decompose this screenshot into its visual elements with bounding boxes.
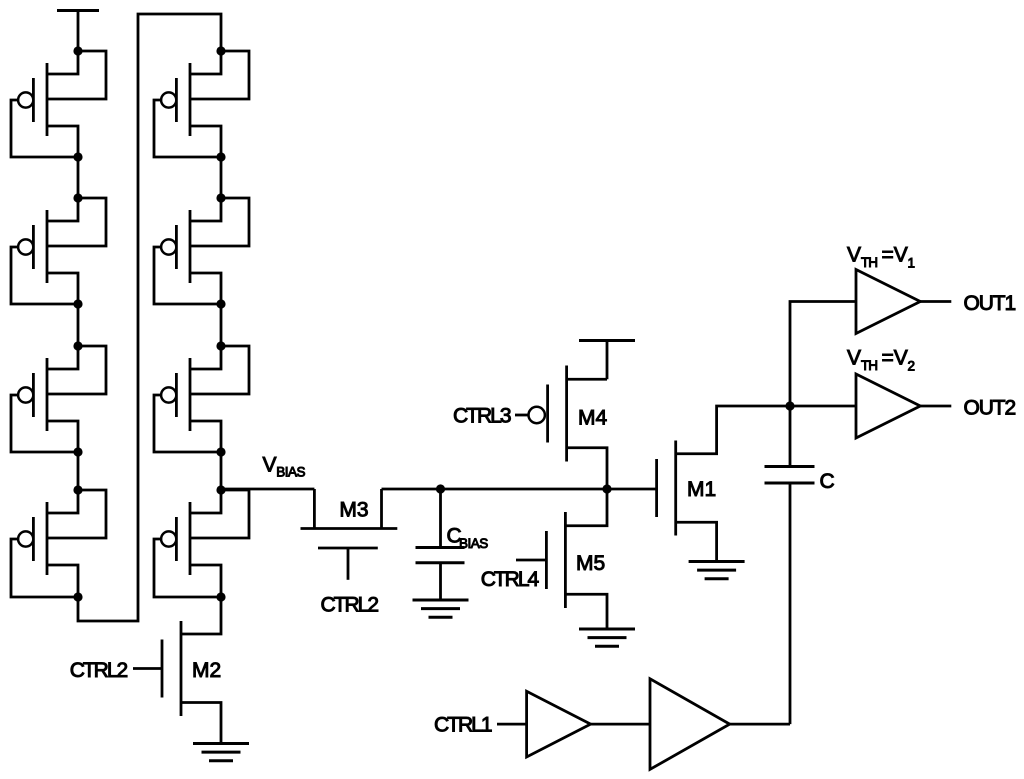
label M1: [687, 478, 716, 501]
label M3: [339, 499, 368, 522]
label C: [820, 470, 835, 493]
comparator U1: [856, 270, 920, 334]
pmos P1 (diode-connected): [11, 46, 106, 161]
svg-text:M1: M1: [687, 478, 716, 501]
svg-text:TH: TH: [861, 358, 877, 373]
svg-text:CTRL2: CTRL2: [321, 594, 379, 617]
svg-text:=V: =V: [882, 347, 908, 370]
VDD supply bar: [57, 11, 99, 52]
svg-text:V: V: [263, 454, 277, 477]
wire U1 output: [920, 300, 951, 303]
wire U3 to U4: [591, 723, 650, 726]
svg-text:CTRL4: CTRL4: [481, 568, 540, 591]
svg-text:2: 2: [908, 359, 916, 374]
pmos P8 (diode-connected): [154, 485, 249, 601]
label CTRL2 (M2 gate): [70, 659, 128, 682]
wire U4 output: [730, 723, 790, 726]
label CTRL3: [453, 405, 511, 428]
svg-text:CTRL2: CTRL2: [70, 659, 128, 682]
label CBIAS: [447, 525, 489, 552]
junction CBIAS tap: [436, 484, 445, 493]
svg-text:CTRL3: CTRL3: [453, 405, 511, 428]
svg-text:CTRL1: CTRL1: [434, 713, 492, 736]
wire P5-P6: [220, 157, 223, 198]
label CTRL1: [434, 713, 492, 736]
svg-text:M3: M3: [339, 499, 368, 522]
svg-text:BIAS: BIAS: [459, 536, 488, 551]
wire output node to comparator U1 input: [790, 302, 856, 407]
wire M3 to M4/M5 node: [382, 488, 608, 491]
svg-text:=V: =V: [882, 243, 908, 266]
label CTRL4: [481, 568, 540, 591]
pmos P5 (diode-connected): [154, 46, 249, 161]
svg-text:TH: TH: [861, 255, 877, 270]
capacitor CBIAS: [416, 489, 465, 600]
wire CTRL1 input: [497, 723, 527, 726]
label OUT2: [964, 396, 1016, 419]
comparator U2: [856, 374, 920, 438]
transistor M2: [133, 597, 221, 744]
ground (M2): [193, 744, 249, 761]
transistor M1: [657, 406, 790, 562]
pmos P6 (diode-connected): [154, 193, 249, 308]
pmos P4 (diode-connected): [11, 485, 106, 601]
node VBIAS wire: [221, 488, 314, 491]
capacitor C: [765, 406, 815, 483]
svg-text:1: 1: [908, 255, 916, 270]
transistor M4: [515, 366, 607, 490]
label VTH=V2: [847, 347, 915, 374]
label M2: [192, 659, 221, 682]
svg-text:OUT1: OUT1: [964, 292, 1016, 315]
wire left-column bottom to right-column top: [78, 14, 221, 621]
VDD supply bar (M4): [579, 341, 635, 380]
svg-text:M4: M4: [578, 407, 607, 430]
buffer U3: [527, 691, 591, 757]
label OUT1: [964, 292, 1016, 315]
wire capacitor C to buffer U4 output: [789, 483, 792, 724]
label CTRL2 (M3 gate): [321, 594, 379, 617]
label M5: [576, 552, 605, 575]
pmos P2 (diode-connected): [11, 193, 106, 308]
ground (M1): [689, 562, 745, 579]
svg-text:V: V: [847, 347, 861, 370]
wire P6-P7: [220, 304, 223, 346]
transistor M3: [301, 489, 398, 580]
ground (CBIAS): [413, 600, 469, 617]
ground (M5): [579, 629, 635, 646]
svg-text:M5: M5: [576, 552, 605, 575]
wire P3-P4: [77, 452, 80, 490]
svg-text:BIAS: BIAS: [276, 465, 305, 480]
pmos P7 (diode-connected): [154, 341, 249, 456]
wire node to M1 gate: [607, 488, 657, 491]
buffer U4: [650, 679, 730, 770]
wire P2-P3: [77, 304, 80, 346]
label VTH=V1: [847, 243, 915, 270]
label M4: [578, 407, 607, 430]
junction output node: [785, 401, 794, 410]
wire P1-P2: [77, 157, 80, 198]
junction M4/M5 drain node: [602, 484, 611, 493]
svg-text:V: V: [847, 243, 861, 266]
transistor M5: [516, 489, 607, 629]
wire P7-P8: [220, 452, 223, 490]
wire U2 output: [920, 405, 951, 408]
svg-text:C: C: [820, 470, 835, 493]
svg-text:M2: M2: [192, 659, 221, 682]
wire output node to comparator U2 input: [790, 405, 856, 408]
pmos P3 (diode-connected): [11, 341, 106, 456]
label VBIAS: [263, 454, 306, 480]
svg-text:OUT2: OUT2: [964, 396, 1016, 419]
